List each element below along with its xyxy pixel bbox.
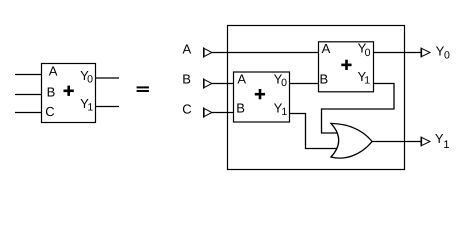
half adder U2	[234, 72, 290, 122]
plus function symbol (U2)	[255, 89, 265, 99]
svg-text:A: A	[322, 41, 331, 56]
enclosing block boundary	[228, 26, 405, 170]
pin label A (U1)	[49, 63, 58, 78]
wire B to half-adder U2 pin A	[212, 83, 234, 85]
pin label Y1 (U2)	[274, 101, 288, 119]
output port triangle Y1	[421, 137, 430, 147]
svg-text:B: B	[236, 100, 245, 115]
node label Y0 (output)	[436, 44, 450, 62]
plus function symbol (U3)	[341, 60, 351, 70]
input port triangle C	[204, 107, 212, 117]
pin label Y1 (U3)	[357, 69, 370, 87]
svg-text:1: 1	[87, 101, 93, 113]
wire input A stub (left symbol)	[15, 74, 41, 76]
svg-text:1: 1	[443, 139, 449, 151]
svg-text:1: 1	[281, 106, 287, 118]
wire C to half-adder U2 pin B	[212, 112, 234, 114]
svg-text:B: B	[319, 71, 328, 86]
wire U2 Y1 to OR gate lower input	[290, 114, 339, 149]
half adder U3	[319, 42, 374, 92]
node label A (input)	[182, 42, 191, 57]
svg-text:C: C	[182, 102, 191, 117]
node label B (input)	[182, 72, 191, 87]
svg-text:0: 0	[87, 73, 93, 85]
pin label B (U1)	[47, 85, 56, 100]
plus function symbol (U1)	[64, 86, 74, 96]
node label C (input)	[182, 102, 191, 117]
input port triangle A	[204, 47, 212, 57]
pin label Y1 (U1)	[80, 96, 93, 113]
wire U3 Y0 to output port Y0	[374, 52, 422, 54]
wire U3 Y1 to OR gate upper input	[322, 84, 395, 134]
pin label B (U3)	[319, 71, 328, 86]
output port triangle Y0	[421, 48, 430, 58]
svg-text:A: A	[237, 72, 246, 87]
pin label Y0 (U1)	[80, 68, 93, 85]
pin label C (U1)	[45, 104, 54, 119]
wire output Y1 stub (left symbol)	[96, 106, 120, 108]
wire A to half-adder U3 pin A	[212, 52, 319, 54]
svg-text:0: 0	[444, 49, 450, 61]
pin label Y0 (U3)	[358, 40, 371, 59]
pin label Y0 (U2)	[274, 71, 287, 89]
OR gate G1	[331, 123, 372, 158]
pin label A (U3)	[322, 41, 331, 56]
node label Y1 (output)	[435, 131, 450, 151]
svg-text:B: B	[47, 85, 56, 100]
input port triangle B	[204, 78, 212, 88]
pin label A (U2)	[237, 72, 246, 87]
svg-text:A: A	[49, 63, 58, 78]
equals sign	[137, 86, 149, 92]
wire U2 Y0 to U3 pin B	[290, 83, 319, 85]
svg-text:B: B	[182, 72, 191, 87]
wire OR gate output to port Y1	[371, 141, 421, 143]
svg-text:0: 0	[281, 77, 287, 89]
svg-text:C: C	[45, 104, 54, 119]
wire input B stub (left symbol)	[15, 94, 41, 96]
wire input C stub (left symbol)	[15, 112, 41, 114]
svg-text:0: 0	[365, 47, 371, 59]
svg-text:A: A	[182, 42, 191, 57]
pin label B (U2)	[236, 100, 245, 115]
svg-text:1: 1	[364, 75, 370, 87]
wire output Y0 stub (left symbol)	[96, 77, 120, 79]
3-input adder symbol U1	[42, 64, 96, 123]
